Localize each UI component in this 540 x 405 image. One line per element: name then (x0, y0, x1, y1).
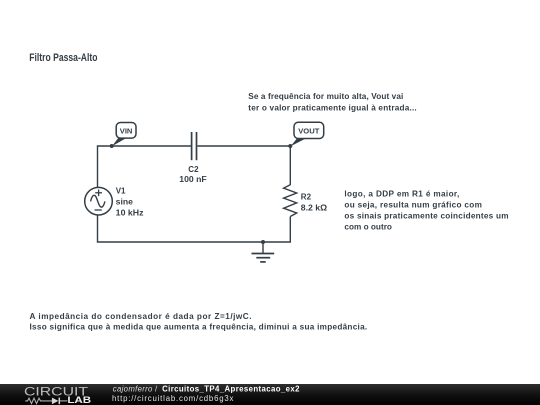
logo resistor squiggle (25, 398, 52, 403)
svg-text:R2: R2 (301, 192, 312, 201)
svg-text:sine: sine (116, 198, 134, 207)
svg-text:100 nF: 100 nF (179, 175, 207, 184)
svg-text:A impedância do condensador é: A impedância do condensador é dada por Z… (30, 312, 252, 321)
svg-text:Se a frequência for muito alta: Se a frequência for muito alta, Vout vai (248, 92, 403, 101)
resistor R2 (284, 185, 297, 217)
svg-text:V1: V1 (116, 187, 126, 196)
svg-text:logo, a DDP em R1 é maior,: logo, a DDP em R1 é maior, (344, 189, 459, 198)
annotation: A impedância... (30, 312, 368, 332)
node VOUT flag (288, 122, 323, 148)
svg-text:Circuitos_TP4_Apresentacao_ex2: Circuitos_TP4_Apresentacao_ex2 (162, 384, 300, 393)
svg-text:http://circuitlab.com/cdb6g3x: http://circuitlab.com/cdb6g3x (112, 394, 233, 403)
logo CIRCUITLAB (24, 385, 92, 405)
wire: top right segment (capacitor to VOUT node) (198, 146, 291, 185)
svg-text:LAB: LAB (67, 395, 91, 405)
annotation: Se a frequência... (248, 92, 416, 112)
footer bar (0, 384, 540, 405)
voltage source V1 (85, 187, 113, 215)
svg-text:ou seja, resulta num gráfico c: ou seja, resulta num gráfico com (344, 201, 482, 210)
capacitor C2 (192, 132, 197, 160)
svg-text:VOUT: VOUT (298, 126, 319, 135)
svg-text:Isso significa que à medida qu: Isso significa que à medida que aumenta … (30, 323, 368, 332)
svg-text:cajomferro: cajomferro (113, 384, 153, 393)
svg-text:VIN: VIN (120, 126, 133, 135)
svg-text:10 kHz: 10 kHz (116, 208, 144, 217)
footer text (112, 384, 300, 403)
wire: bottom right segment (263, 217, 290, 243)
ground (252, 242, 275, 262)
label V1 value (116, 187, 144, 218)
wire: left bottom segment (98, 215, 264, 242)
annotation: logo, a DDP... (344, 189, 508, 231)
label R2 value (301, 192, 328, 212)
svg-text:Filtro Passa-Alto: Filtro Passa-Alto (29, 52, 97, 64)
wire: top left segment (VIN corner to capacitor) (98, 146, 192, 188)
node VIN flag (110, 123, 136, 149)
svg-text:com o outro: com o outro (344, 223, 392, 232)
junction: VOUT node (288, 144, 292, 148)
junction: ground node (261, 240, 265, 244)
junction: VIN node (110, 144, 114, 148)
svg-text:ter o valor praticamente igual: ter o valor praticamente igual à entrada… (248, 103, 416, 112)
svg-text:os sinais praticamente coincid: os sinais praticamente coincidentes um (344, 212, 508, 221)
svg-text:C2: C2 (188, 165, 199, 174)
svg-text:8.2 kΩ: 8.2 kΩ (301, 203, 328, 212)
logo diode (52, 398, 59, 405)
